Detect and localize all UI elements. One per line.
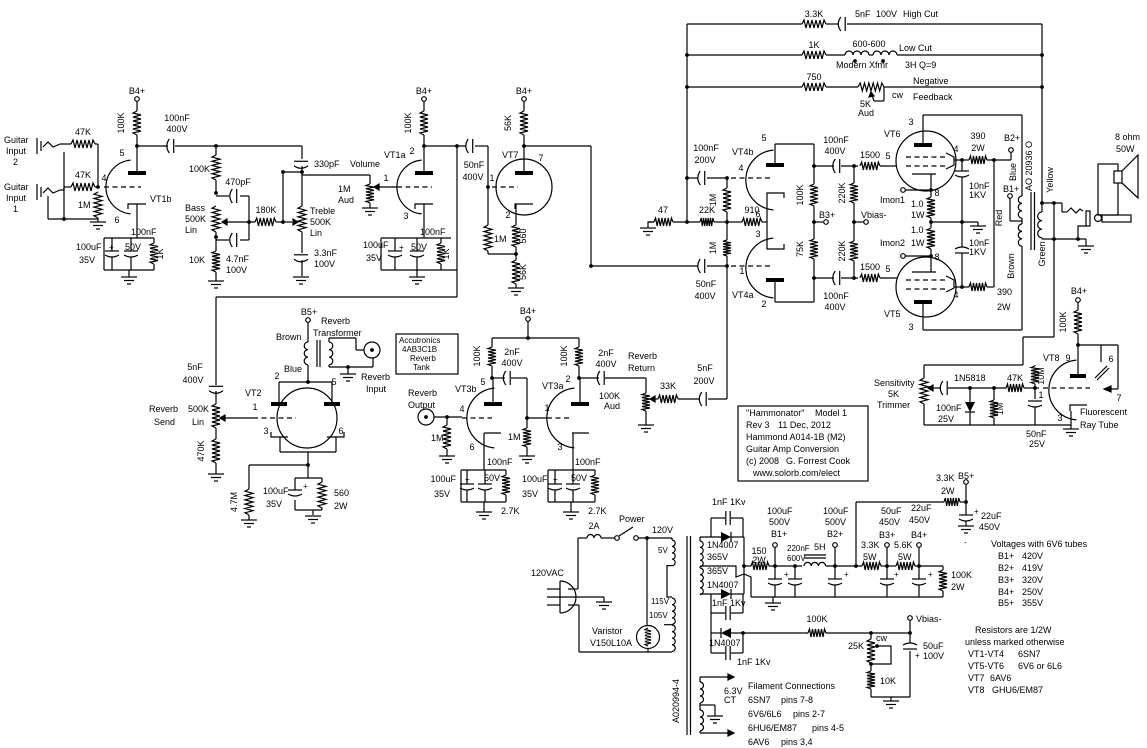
svg-text:25V: 25V — [938, 414, 954, 424]
label + — [399, 243, 404, 252]
label 5W — [898, 552, 912, 562]
node — [773, 564, 777, 568]
speaker coil box — [1114, 171, 1122, 183]
resistor 56K — [520, 111, 528, 135]
svg-text:B5+: B5+ — [301, 307, 317, 317]
label Power — [619, 514, 645, 524]
resistor 1K — [802, 51, 826, 59]
label pin 5 — [885, 151, 890, 161]
svg-text:11 Dec, 2012: 11 Dec, 2012 — [778, 420, 831, 430]
wire — [960, 501, 966, 503]
capacitor 100uF 500V — [828, 566, 842, 597]
svg-text:B1+: B1+ — [998, 551, 1014, 561]
svg-text:5: 5 — [480, 377, 485, 387]
resistor 1K — [150, 243, 158, 264]
svg-text:400V: 400V — [462, 172, 483, 182]
svg-text:50W: 50W — [1116, 144, 1135, 154]
svg-text:B4+: B4+ — [416, 86, 432, 96]
node — [62, 217, 66, 221]
label pin 4 — [738, 163, 743, 173]
capacitor 100uF 35V — [288, 490, 302, 496]
capacitor 22uF 450V — [912, 566, 926, 597]
resistor 180K — [255, 218, 276, 226]
wire — [775, 144, 814, 166]
svg-text:B4+: B4+ — [998, 587, 1014, 597]
svg-text:3.3K: 3.3K — [936, 473, 955, 483]
svg-text:100K: 100K — [1058, 311, 1068, 332]
svg-text:560: 560 — [518, 228, 528, 243]
label 100K — [559, 345, 569, 366]
label pin 5 — [885, 264, 890, 274]
ground — [293, 277, 309, 284]
label Resistors are 1/2W — [975, 625, 1052, 635]
label B4+ 250V — [998, 587, 1043, 597]
wire — [369, 203, 371, 208]
node — [812, 220, 816, 224]
wire — [707, 265, 727, 267]
label 120VAC — [531, 568, 564, 578]
cathode VT3a — [572, 433, 589, 470]
node — [812, 164, 816, 280]
svg-text:365V: 365V — [707, 552, 728, 562]
wire tap jog — [667, 566, 672, 597]
wire — [707, 177, 727, 179]
svg-text:3.3nF: 3.3nF — [314, 248, 338, 258]
svg-text:750: 750 — [806, 72, 821, 82]
label 6AV6 pins 3,4 — [748, 737, 813, 747]
svg-text:100uF: 100uF — [430, 474, 456, 484]
wire — [491, 366, 493, 378]
svg-text:Voltages with 6V6 tubes: Voltages with 6V6 tubes — [991, 539, 1088, 549]
label Blue — [1008, 163, 1018, 181]
node — [992, 158, 996, 162]
wire reverb input — [329, 338, 364, 350]
wire — [215, 428, 217, 439]
label Imon1 — [880, 195, 905, 205]
label Sensitivity — [874, 378, 915, 388]
treble wiper — [293, 219, 298, 225]
svg-text:CT: CT — [724, 695, 736, 705]
svg-text:100nF: 100nF — [823, 291, 849, 301]
wire jack tip — [1062, 203, 1067, 212]
node — [968, 386, 972, 390]
label 1M — [708, 242, 718, 255]
wire upper coupling — [814, 165, 858, 167]
label 50nF — [1026, 429, 1047, 439]
wire — [446, 449, 448, 456]
svg-text:Filament Connections: Filament Connections — [748, 681, 836, 691]
svg-text:1nF 1Kv: 1nF 1Kv — [712, 598, 746, 608]
svg-text:Rev 3: Rev 3 — [746, 420, 770, 430]
capacitor 100uF 500V — [768, 566, 782, 597]
label pin 7 — [538, 153, 543, 163]
svg-text:10M: 10M — [1036, 367, 1046, 385]
svg-text:1: 1 — [489, 173, 494, 183]
terminal B3+ — [824, 220, 829, 225]
svg-text:Negative: Negative — [913, 76, 949, 86]
label 6HU6/EM87 pins 4-5 — [748, 723, 844, 733]
resistor 470K — [212, 439, 220, 463]
pot 25K wiper — [871, 644, 891, 664]
node — [522, 144, 526, 148]
resistor 5.6K 5W — [896, 562, 915, 570]
svg-text:355V: 355V — [1022, 598, 1043, 608]
svg-text:Return: Return — [628, 363, 655, 373]
capacitor 5nF 100V — [838, 17, 845, 31]
svg-text:VT1-VT4: VT1-VT4 — [968, 649, 1004, 659]
svg-text:2A: 2A — [588, 521, 599, 531]
tube VT1a envelope — [397, 160, 422, 214]
node — [929, 188, 933, 192]
label Transformer — [313, 328, 362, 338]
wire 470pF branch — [216, 196, 249, 240]
resistor 1M — [723, 240, 731, 256]
wire — [307, 322, 309, 341]
plate VT2b — [324, 402, 340, 406]
svg-text:-: - — [964, 538, 967, 547]
label B1+ — [1003, 184, 1019, 194]
svg-text:+: + — [928, 570, 933, 579]
svg-text:www.solorb.com/elect: www.solorb.com/elect — [752, 468, 841, 478]
label 25K — [848, 641, 864, 651]
label 1K — [441, 248, 451, 259]
svg-text:3: 3 — [755, 229, 760, 239]
wire — [853, 166, 855, 222]
resistor 220K — [850, 183, 858, 203]
label 100uF — [767, 506, 793, 516]
wire tail line — [648, 221, 742, 223]
label Lin — [310, 228, 322, 238]
svg-text:105V: 105V — [649, 611, 668, 620]
label 2.7K — [501, 506, 520, 516]
wire — [515, 284, 517, 288]
label Brown — [276, 332, 302, 342]
svg-text:3.3K: 3.3K — [861, 540, 880, 550]
label - — [964, 538, 967, 547]
label 100K — [806, 614, 827, 624]
wire feedback left vertical — [686, 24, 688, 222]
svg-text:Input: Input — [366, 384, 387, 394]
label pin 7 — [1116, 393, 1121, 403]
svg-text:500V: 500V — [769, 517, 790, 527]
plate VT6 — [914, 115, 932, 147]
wire — [774, 547, 776, 566]
svg-text:5: 5 — [761, 133, 766, 143]
svg-text:VT3a: VT3a — [542, 381, 564, 391]
label pin 3 — [557, 442, 562, 452]
svg-text:100K: 100K — [806, 614, 827, 624]
wire — [248, 515, 250, 520]
label 330pF — [314, 159, 340, 169]
transformer reverb core — [317, 340, 320, 367]
svg-text:100nF: 100nF — [936, 403, 962, 413]
svg-text:50V: 50V — [411, 242, 427, 252]
label 10K — [189, 255, 205, 265]
svg-text:1M: 1M — [494, 234, 507, 244]
wire filament CT — [700, 705, 715, 716]
terminal Imon1 — [901, 188, 906, 193]
wire — [923, 404, 925, 425]
svg-text:1W: 1W — [911, 238, 925, 248]
ground — [439, 456, 455, 463]
svg-text:100K: 100K — [559, 345, 569, 366]
svg-text:B3+: B3+ — [819, 210, 835, 220]
node — [306, 380, 310, 384]
label Low Cut — [899, 43, 933, 53]
inductor 600-600 modern xfmr — [845, 51, 897, 55]
wire — [423, 135, 425, 146]
wire — [880, 277, 897, 279]
label Aud — [338, 195, 354, 205]
label 35V — [434, 489, 450, 499]
label 5nF — [187, 362, 203, 372]
label + — [553, 475, 558, 484]
label 35V — [366, 253, 382, 263]
label 200V — [694, 155, 715, 165]
varistor V150L10A — [637, 626, 660, 649]
label Aud — [858, 108, 874, 118]
label + — [465, 475, 470, 484]
jack tip spring — [1067, 208, 1083, 213]
svg-text:100nF: 100nF — [131, 227, 157, 237]
wire — [527, 321, 529, 338]
tube VT8 envelope — [1049, 360, 1077, 420]
node — [306, 463, 310, 467]
svg-text:100nF: 100nF — [693, 143, 719, 153]
svg-text:1: 1 — [383, 173, 388, 183]
choke 5H — [804, 555, 826, 566]
label 100V — [923, 651, 944, 661]
wire — [487, 187, 489, 225]
wire — [671, 624, 673, 652]
label VT1-VT4 6SN7 — [968, 649, 1041, 659]
label 1M — [995, 403, 1005, 416]
grid2 VT6 — [906, 165, 948, 167]
label Tank — [413, 363, 431, 372]
svg-text:1N5818: 1N5818 — [954, 373, 986, 383]
label 3.3nF — [314, 248, 338, 258]
resistor 560 — [512, 225, 520, 247]
label 2W — [951, 582, 965, 592]
svg-text:+: + — [109, 243, 114, 252]
label 600V — [787, 554, 806, 563]
svg-text:330pF: 330pF — [314, 159, 340, 169]
snubber cap 1nF bias — [711, 633, 743, 660]
label 50V — [571, 473, 587, 483]
svg-text:450V: 450V — [879, 517, 900, 527]
svg-text:100K: 100K — [795, 184, 805, 205]
potentiometer Sensitivity 5K Trimmer — [920, 378, 928, 404]
wire low-cut line — [687, 54, 1042, 56]
svg-text:400V: 400V — [694, 291, 715, 301]
plate VT8 — [1070, 374, 1086, 378]
capacitor 100nF 50V — [478, 470, 492, 502]
label AO 20936 O — [1024, 141, 1034, 191]
label B4+ — [516, 86, 532, 96]
svg-text:VT4b: VT4b — [732, 147, 754, 157]
label pin 3 — [755, 229, 760, 239]
label 1.0 — [911, 225, 924, 235]
ground — [362, 208, 378, 215]
label 47K — [75, 127, 91, 137]
svg-text:2: 2 — [274, 371, 279, 381]
svg-text:Output: Output — [408, 400, 436, 410]
wire — [909, 620, 911, 697]
wire — [931, 221, 978, 223]
svg-text:Transformer: Transformer — [313, 328, 362, 338]
resistor 100K — [488, 347, 496, 366]
wire plate to OT — [923, 246, 1022, 330]
label 33K — [660, 381, 676, 391]
label pin 1 — [739, 266, 744, 276]
wire — [905, 255, 931, 257]
box reverb tank — [396, 334, 458, 374]
label 5V — [658, 546, 668, 555]
label 1W — [911, 238, 925, 248]
resistor 47K — [71, 183, 95, 191]
tube VT2 envelope — [277, 388, 337, 448]
label 100K — [189, 164, 210, 174]
terminal B2+ — [1009, 148, 1014, 153]
svg-text:2nF: 2nF — [504, 347, 520, 357]
svg-text:Trimmer: Trimmer — [877, 400, 910, 410]
label 390 — [970, 131, 985, 141]
svg-text:Varistor: Varistor — [592, 626, 622, 636]
svg-text:6AV6: 6AV6 — [748, 737, 769, 747]
svg-text:100nF: 100nF — [420, 227, 446, 237]
label 400V — [694, 291, 715, 301]
label Accutronics — [399, 336, 440, 345]
label 2A — [588, 521, 599, 531]
diode 1N4007 bias — [721, 628, 731, 638]
box title — [738, 406, 868, 481]
svg-text:100V: 100V — [314, 259, 335, 269]
label 50nF — [464, 160, 485, 170]
label B3+ — [879, 530, 895, 540]
svg-text:200V: 200V — [693, 376, 714, 386]
svg-text:50V: 50V — [571, 473, 587, 483]
label 400V — [824, 302, 845, 312]
wire — [95, 186, 98, 188]
diode 1N4007 top — [721, 532, 731, 542]
label 3.3K — [805, 9, 824, 19]
node — [929, 220, 933, 224]
label 180K — [255, 205, 276, 215]
svg-text:400V: 400V — [182, 375, 203, 385]
node — [854, 564, 858, 568]
label pin 9 — [1065, 353, 1070, 363]
label Reverb — [321, 316, 350, 326]
wire — [1078, 239, 1086, 246]
svg-text:Reverb: Reverb — [361, 372, 390, 382]
node — [869, 631, 873, 635]
terminal B1+ — [1008, 194, 1013, 199]
wire plate line — [137, 145, 216, 147]
wire plug middle ground — [576, 597, 604, 602]
label 100nF — [693, 143, 719, 153]
wire — [915, 547, 943, 566]
resistor 10K — [212, 251, 220, 272]
node — [422, 144, 426, 148]
label 50V — [411, 242, 427, 252]
svg-text:1.0: 1.0 — [911, 199, 924, 209]
label 10nF — [969, 181, 990, 191]
resistor 47K — [71, 140, 95, 148]
label 2W — [941, 486, 955, 496]
label 75K — [795, 241, 805, 257]
wire — [813, 166, 815, 222]
label 5K — [888, 389, 899, 399]
label Aud — [604, 401, 620, 411]
cathodes VT4 — [762, 193, 784, 249]
capacitor 4.7nF 100V — [230, 233, 237, 247]
potentiometer Volume 1M Aud — [366, 184, 374, 203]
svg-text:50nF: 50nF — [1026, 429, 1047, 439]
wire 100nF 200V branch — [687, 177, 698, 179]
svg-text:400V: 400V — [166, 124, 187, 134]
svg-text:Input: Input — [6, 193, 27, 203]
svg-text:1: 1 — [252, 402, 257, 412]
terminal B4+ — [135, 97, 140, 102]
wire — [570, 502, 572, 512]
label CT — [724, 695, 736, 705]
tube VT3b envelope — [467, 388, 495, 448]
wire — [601, 537, 615, 539]
ground — [1063, 429, 1079, 436]
transformer OT primary upper — [1018, 196, 1022, 218]
label pin 1 — [252, 402, 257, 412]
resistor 100K — [420, 111, 428, 135]
svg-text:Ray Tube: Ray Tube — [1080, 420, 1119, 430]
svg-text:25V: 25V — [1029, 439, 1045, 449]
label 1W — [911, 210, 925, 220]
label 200V — [693, 376, 714, 386]
svg-text:6SN7: 6SN7 — [1018, 649, 1041, 659]
svg-text:VT4a: VT4a — [732, 290, 754, 300]
wire — [215, 272, 217, 281]
wire HV top — [700, 536, 744, 538]
cathode VT1b — [128, 204, 146, 238]
node — [833, 564, 837, 568]
wire — [215, 463, 217, 474]
label www.solorb.com/elect — [752, 468, 841, 478]
label Guitar Input 2 — [4, 135, 29, 167]
svg-text:(c) 2008: (c) 2008 — [746, 456, 779, 466]
terminal B4+ — [1076, 298, 1081, 303]
label 50uF — [923, 641, 944, 651]
resistor 10K — [867, 663, 875, 689]
label 8 ohm — [1115, 132, 1140, 142]
cathode VT6 — [912, 174, 936, 190]
beam plate VT6 — [946, 153, 954, 169]
svg-text:25K: 25K — [848, 641, 864, 651]
svg-text:3.3K: 3.3K — [805, 9, 824, 19]
resistor 1.0 1W — [927, 228, 935, 249]
svg-text:+: + — [844, 570, 849, 579]
svg-text:VT3b: VT3b — [455, 384, 477, 394]
wire — [678, 398, 700, 400]
resistor 1M — [990, 388, 998, 425]
label + — [974, 507, 979, 516]
svg-text:GHU6/EM87: GHU6/EM87 — [992, 685, 1043, 695]
label VT4a — [732, 290, 754, 300]
label 2nF — [598, 348, 614, 358]
grid VT4a — [731, 265, 772, 267]
wire filament top tap — [700, 674, 734, 680]
svg-text:2W: 2W — [997, 302, 1011, 312]
label Blue — [284, 364, 302, 374]
label Yellow — [1045, 167, 1055, 193]
